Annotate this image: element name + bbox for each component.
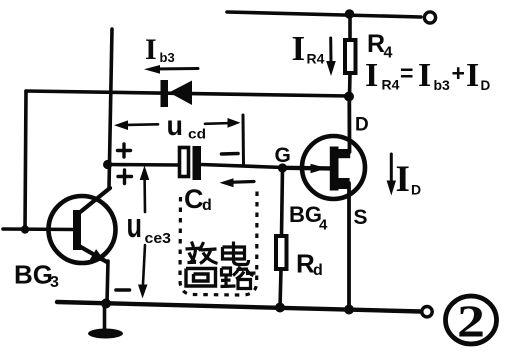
label R4 (367, 30, 393, 62)
transistor BG4 circle (302, 136, 365, 199)
svg-text:d: d (202, 197, 212, 214)
label Cd (184, 184, 212, 214)
wire gate lead (285, 166, 330, 171)
svg-text:b3: b3 (160, 50, 175, 65)
wire left vertical feedback (25, 91, 26, 230)
transistor BG3 collector stroke (79, 188, 110, 213)
label lu character (loop) (221, 267, 256, 289)
wire top supply rail (227, 12, 421, 17)
svg-text:R: R (367, 30, 385, 58)
svg-text:BG: BG (14, 260, 53, 290)
label hui character (loop) (186, 269, 216, 287)
arrow gate pointing right (311, 164, 328, 173)
svg-text:BG: BG (289, 202, 322, 227)
svg-text:d: d (313, 262, 323, 279)
wire R4 top lead (348, 14, 352, 40)
label Ib3 (145, 33, 175, 66)
svg-text:I: I (365, 57, 378, 94)
wire Rd bottom lead (280, 269, 281, 308)
ground symbol (88, 329, 123, 339)
arrow Ib3 pointing left (144, 65, 198, 74)
svg-text:3: 3 (50, 274, 59, 291)
svg-text:b3: b3 (434, 77, 451, 93)
svg-text:I: I (292, 29, 306, 68)
wire feedback line from base loop to R4 node (26, 91, 349, 96)
svg-text:cd: cd (188, 126, 206, 142)
node junction gate (278, 163, 287, 172)
svg-text:S: S (354, 206, 368, 229)
wire ground stub (103, 304, 107, 331)
svg-text:+: + (452, 60, 465, 86)
label minus sign near capacitor (222, 152, 239, 156)
wire collector vertical up to diode line (109, 29, 112, 188)
svg-text:R4: R4 (382, 77, 400, 93)
figure number circled 2 (446, 296, 497, 347)
capacitor Cd left plate (180, 148, 189, 177)
svg-text:I: I (145, 33, 157, 66)
arrow ID downward (387, 154, 396, 196)
wire base lead (3, 227, 76, 231)
wire Rd top lead (282, 168, 283, 236)
dimension ucd right tick (242, 115, 246, 166)
svg-text:4: 4 (384, 45, 393, 62)
wire capacitor right lead to gate node (201, 165, 283, 168)
transistor BG3 base bar (73, 210, 81, 250)
terminal bottom-right open circle (422, 307, 432, 317)
label minus sign near emitter (116, 288, 130, 292)
wire drain stub (337, 149, 350, 158)
resistor R4 (345, 40, 356, 73)
arrow IR4 downward (326, 38, 336, 76)
node junction emitter / bottom rail (101, 299, 111, 309)
svg-text:I: I (396, 159, 410, 200)
wire capacitor left lead (108, 163, 180, 167)
label Rd (296, 249, 323, 280)
svg-text:D: D (411, 182, 421, 198)
label BG3 (14, 260, 59, 292)
node junction source / bottom rail (344, 305, 354, 315)
arrow discharge direction pointing left (220, 178, 255, 187)
wire emitter vertical down (107, 261, 108, 303)
svg-text:I: I (418, 57, 431, 94)
label IR4 current (292, 29, 325, 68)
dashed discharge loop box (180, 190, 257, 295)
capacitor Cd right plate (193, 146, 202, 180)
svg-text:2: 2 (457, 296, 485, 347)
wire source stub (337, 178, 350, 189)
label plus sign upper (118, 144, 131, 157)
transistor BG4 channel bar (330, 147, 339, 191)
node junction Rd / bottom rail (275, 303, 285, 313)
label BG4 (289, 202, 328, 234)
svg-text:=: = (400, 60, 413, 86)
resistor Rd (276, 236, 287, 269)
label uce3 (127, 207, 172, 247)
svg-text:4: 4 (319, 217, 328, 234)
dimension ucd right arrow (205, 118, 241, 128)
dimension ucd left arrow (114, 120, 158, 130)
transistor BG3 circle (49, 196, 116, 263)
label fang character (discharge) (186, 242, 218, 264)
dimension uce3 top arrow (140, 166, 150, 213)
diode cathode bar (161, 80, 169, 107)
svg-text:R4: R4 (307, 51, 325, 67)
svg-text:I: I (466, 57, 479, 94)
transistor BG3 emitter stroke (79, 246, 107, 262)
transistor BG3 emitter arrowhead (90, 249, 106, 262)
dimension uce3 bottom arrow (138, 245, 148, 299)
node junction capacitor tap (103, 160, 112, 169)
node junction top rail / R4 (345, 9, 355, 19)
svg-text:D: D (355, 115, 369, 136)
wire bottom rail (57, 302, 421, 312)
svg-text:ce3: ce3 (145, 231, 172, 247)
label ID (396, 159, 422, 200)
wire drain vertical (347, 96, 351, 152)
label plus sign lower (118, 170, 132, 184)
wire source vertical down to rail (347, 183, 351, 310)
svg-text:u: u (167, 110, 184, 141)
node junction R4/diode line/drain (344, 92, 354, 102)
wire R4 bottom lead (348, 73, 352, 96)
label ucd (167, 110, 207, 142)
label dian character (discharge) (223, 242, 249, 265)
node junction base wire (21, 225, 29, 233)
label equation IR4=Ib3+ID (365, 57, 491, 94)
svg-text:u: u (127, 207, 143, 245)
svg-text:C: C (184, 184, 204, 214)
terminal top-right open circle (424, 12, 435, 23)
svg-text:D: D (481, 78, 491, 93)
diode triangle pointing left (169, 81, 192, 106)
